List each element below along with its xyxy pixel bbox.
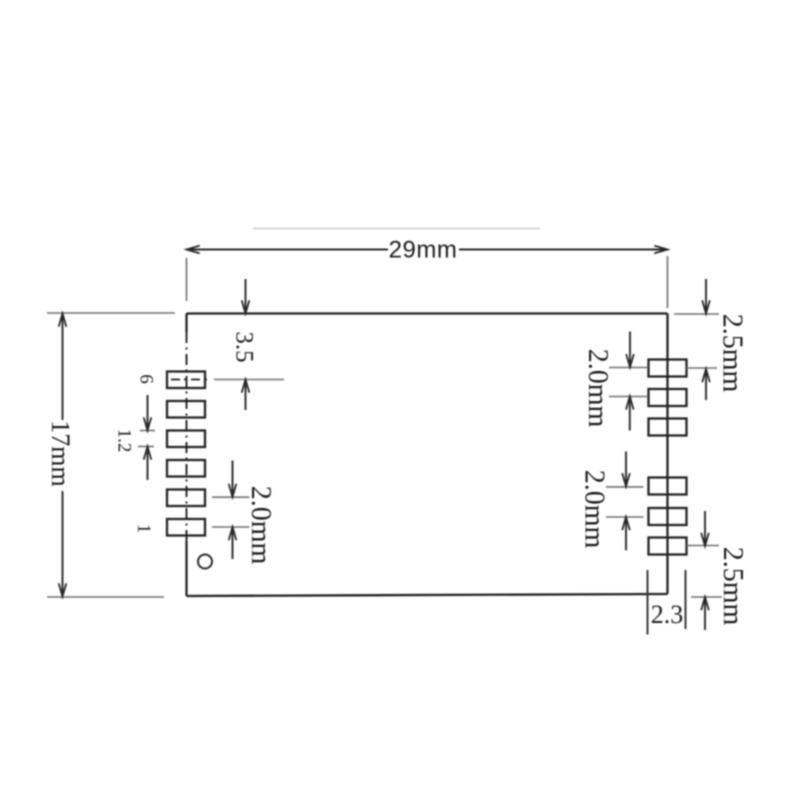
svg-text:1.2: 1.2 (114, 429, 135, 453)
svg-text:2.0mm: 2.0mm (579, 470, 610, 549)
svg-text:2.5mm: 2.5mm (717, 547, 748, 626)
svg-text:29mm: 29mm (389, 237, 458, 264)
svg-text:2.5mm: 2.5mm (717, 314, 748, 393)
svg-text:1: 1 (133, 524, 154, 534)
svg-text:3.5: 3.5 (231, 331, 258, 362)
svg-text:6: 6 (136, 374, 157, 384)
svg-text:2.0mm: 2.0mm (245, 486, 276, 565)
svg-text:2.0mm: 2.0mm (582, 349, 613, 428)
svg-text:17mm: 17mm (46, 420, 75, 486)
svg-text:2.3: 2.3 (651, 600, 684, 629)
